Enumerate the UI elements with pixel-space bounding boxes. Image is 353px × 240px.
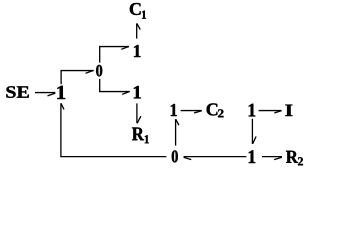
node C1 letter C xyxy=(130,3,141,15)
node R1 subscript 1 xyxy=(145,135,149,143)
node 0B xyxy=(96,65,102,77)
node R1 letter R xyxy=(132,128,144,141)
node R2 letter R xyxy=(286,151,298,163)
node SE xyxy=(6,86,28,98)
node C1 subscript 1 xyxy=(142,11,146,19)
node 0F xyxy=(172,150,178,162)
wire arrow node 1A to node 0B (elbow up-right) xyxy=(61,71,94,85)
node C2 subscript 2 xyxy=(218,109,224,117)
wire arrow node 0B to node 1C (elbow up-right) xyxy=(100,47,129,63)
node 1H xyxy=(249,150,256,163)
wire arrow node 1G to I xyxy=(259,110,282,112)
wire arrow node 1G to node 1H (down) xyxy=(251,119,253,144)
node 1C xyxy=(134,45,141,57)
wire arrow node 1D to R1 (down) xyxy=(136,103,138,123)
node R2 subscript 2 xyxy=(298,157,303,165)
node I xyxy=(285,105,292,116)
wire arrow node 1E to C2 xyxy=(181,110,202,112)
wire arrow node 0F to node 1A (long elbow left then up) xyxy=(61,103,166,156)
node 1A xyxy=(57,86,65,99)
node 1G xyxy=(249,104,256,117)
node 1D xyxy=(134,86,141,98)
wire arrow node 1C to C1 (up) xyxy=(136,23,138,38)
node C2 letter C xyxy=(207,103,218,115)
wire arrow node 0B to node 1D (elbow down-right) xyxy=(100,79,130,92)
wire arrow SE to node 1A xyxy=(35,92,55,94)
wire arrow node 1H to R2 xyxy=(262,156,282,158)
wire arrow node 1H to node 0F (leftward) xyxy=(184,156,247,158)
node 1E xyxy=(171,104,177,116)
wire arrow node 0F to node 1E (up) xyxy=(175,119,177,145)
